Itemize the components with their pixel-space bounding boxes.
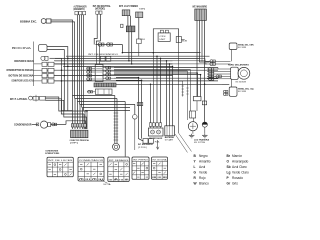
svg-text:Azul: Azul xyxy=(199,165,205,169)
headlight bullets row A xyxy=(210,60,231,66)
wire rows join xyxy=(200,56,222,79)
wire vertical feed left xyxy=(33,42,35,87)
wire left row 3 xyxy=(54,69,218,71)
spark plug wire ticks xyxy=(114,113,119,140)
svg-text:(2 POS.): (2 POS.) xyxy=(138,147,147,149)
svg-text:Rojo: Rojo xyxy=(199,176,206,180)
wire clutch lead xyxy=(138,18,140,39)
wire CDI drops xyxy=(153,43,178,134)
junction block xyxy=(126,26,135,32)
left switch lead label 3 xyxy=(7,69,43,72)
svg-text:BOB: BOB xyxy=(182,41,188,43)
svg-text:6V 18W: 6V 18W xyxy=(238,47,246,49)
svg-text:6V 17/5W: 6V 17/5W xyxy=(194,142,205,144)
tail lamp label xyxy=(194,139,209,145)
inline connectors on charge lines xyxy=(137,103,143,106)
ground stub center xyxy=(156,140,159,150)
svg-text:INT. BOCINA: INT. BOCINA xyxy=(153,158,168,161)
switch continuity table 5 xyxy=(152,157,169,179)
svg-text:(MAGNETO): (MAGNETO) xyxy=(74,8,85,11)
svg-text:Blanco: Blanco xyxy=(199,182,209,186)
svg-text:CONECTOR PRINCIPAL: CONECTOR PRINCIPAL xyxy=(70,139,90,142)
svg-text:INT. FRENO: INT. FRENO xyxy=(133,159,149,161)
svg-text:Rosado: Rosado xyxy=(232,176,243,180)
svg-text:Lg: Lg xyxy=(227,171,231,175)
svg-text:INT. ENCENDIDO: INT. ENCENDIDO xyxy=(138,144,153,146)
svg-text:NOTA: NOTA xyxy=(104,183,112,186)
svg-text:BOCINA: BOCINA xyxy=(12,47,32,50)
svg-text:Sb: Sb xyxy=(227,165,231,169)
wire neutral leads xyxy=(94,14,100,44)
rectifier xyxy=(148,128,163,136)
switch continuity table 4 xyxy=(132,157,149,179)
diode tick xyxy=(121,24,123,27)
svg-text:BOBINA EXC.: BOBINA EXC. xyxy=(20,20,37,23)
svg-text:(9P): (9P) xyxy=(70,142,79,144)
svg-text:(VERDE): (VERDE) xyxy=(95,8,105,11)
turn signal front right xyxy=(229,43,237,50)
CDI label xyxy=(140,39,146,41)
bullet connector pair (exciter lead) xyxy=(41,19,51,24)
wire lower fanout center xyxy=(115,96,125,157)
battery note text xyxy=(138,144,153,149)
battery BT1 xyxy=(165,126,175,136)
horn label xyxy=(12,47,32,50)
wire left row 2 xyxy=(54,63,173,65)
harness coupler xyxy=(71,130,88,138)
wire switch outputs right xyxy=(114,68,218,97)
headlight sub label xyxy=(236,81,247,83)
front brake switch label xyxy=(119,5,146,10)
svg-text:FARO DELANTERO: FARO DELANTERO xyxy=(228,64,249,67)
svg-text:INTERRUPTOR DE PARADA: INTERRUPTOR DE PARADA xyxy=(7,69,34,72)
fan inline connectors xyxy=(71,124,86,127)
svg-text:SENAL DEL. IZQ.: SENAL DEL. IZQ. xyxy=(238,88,254,91)
horn xyxy=(39,45,47,52)
left switch lead label 1 xyxy=(0,0,1,1)
left switch connector pair 2 xyxy=(42,62,54,66)
inline connector pair on bus xyxy=(100,56,111,61)
wire exciter double lead xyxy=(51,20,75,99)
svg-text:BOTON DE BOCINA: BOTON DE BOCINA xyxy=(9,75,34,78)
wire horn leads xyxy=(47,47,68,111)
wire junction drops xyxy=(129,32,132,64)
wire turn signal right drop xyxy=(231,50,233,62)
ground tail lamp xyxy=(202,127,208,138)
battery label xyxy=(165,136,174,141)
ignition switch right bullets xyxy=(103,66,114,79)
junction dots xyxy=(61,52,206,112)
wire main bus xyxy=(55,45,202,59)
svg-text:CDI: CDI xyxy=(160,36,167,38)
svg-text:6V 4AH: 6V 4AH xyxy=(165,139,174,142)
front brake switch connector xyxy=(122,10,130,16)
headlight label xyxy=(228,64,249,67)
clutch switch connector xyxy=(136,12,143,18)
bullet connectors main lead xyxy=(98,43,112,46)
svg-text:UNIT: UNIT xyxy=(160,39,167,41)
svg-text:6V 35/35W: 6V 35/35W xyxy=(236,81,247,83)
inline connector tail xyxy=(202,101,206,105)
wire alternator bundle xyxy=(78,15,84,111)
svg-text:Marrón: Marrón xyxy=(232,154,242,158)
neutral switch label xyxy=(93,5,111,11)
svg-text:GN: GN xyxy=(139,8,146,10)
left switch connector pair 3 xyxy=(42,68,54,72)
wire long rows right xyxy=(55,61,210,67)
ignition pulse generator label xyxy=(20,20,37,23)
svg-text:6V 18W: 6V 18W xyxy=(238,91,246,93)
brake light switch rear xyxy=(193,97,201,112)
left switch lead label 5 xyxy=(12,80,43,83)
wire colour legend xyxy=(194,154,250,186)
wire mid verticals to regulator xyxy=(116,56,173,141)
headlight xyxy=(231,67,250,79)
turn signal front left label xyxy=(238,88,254,94)
wire turn signal left drop xyxy=(222,79,232,87)
condenser xyxy=(32,121,51,128)
wire side stand leads xyxy=(45,97,87,129)
switch continuity table 2 xyxy=(78,157,105,181)
condenser label xyxy=(14,124,32,127)
wire left row 4 xyxy=(54,75,173,77)
wire brake switch leads xyxy=(128,16,131,26)
wire shielded ticks xyxy=(178,70,191,120)
flasher relay xyxy=(188,122,197,131)
turn signal front right label xyxy=(238,43,254,49)
CDI unit U1 xyxy=(153,29,178,50)
alternator connector bank xyxy=(75,11,86,14)
switch continuity table 3 xyxy=(108,157,130,182)
svg-text:Azul Claro: Azul Claro xyxy=(232,165,247,169)
svg-text:CONMUTADOR LUCES ALTAS: CONMUTADOR LUCES ALTAS xyxy=(12,80,34,83)
svg-text:CDI: CDI xyxy=(140,39,146,41)
svg-text:Anaranjado: Anaranjado xyxy=(232,159,249,163)
wire left row 5 xyxy=(54,80,218,82)
svg-text:CONMUTADOR: CONMUTADOR xyxy=(79,159,104,162)
left switch connector pair 1 xyxy=(0,0,1,1)
inline diode D1 xyxy=(137,39,142,56)
svg-text:INT. MANUBRIO: INT. MANUBRIO xyxy=(193,5,208,8)
wire condenser lead xyxy=(51,121,86,129)
tail lamp bulb xyxy=(202,122,207,127)
pointer line to table xyxy=(175,133,192,153)
left switch connector pair 5 xyxy=(42,79,54,83)
alternator connector bank label xyxy=(74,5,87,11)
turn signal front left xyxy=(223,87,237,96)
wire handlebar bundle xyxy=(197,20,210,122)
svg-text:Amarillo: Amarillo xyxy=(199,159,211,163)
fuse F1 xyxy=(143,139,160,144)
svg-text:INTERRUPTORES: INTERRUPTORES xyxy=(45,153,60,155)
handlebar switch connector label xyxy=(193,5,208,8)
side stand switch connector xyxy=(29,95,46,102)
table heading text xyxy=(45,150,60,155)
wire switch feeds xyxy=(97,45,100,65)
flasher relay connector xyxy=(190,111,196,122)
wire to rear lamp xyxy=(114,70,229,85)
svg-text:INT. SENALES: INT. SENALES xyxy=(109,159,129,162)
left switch lead label 4 xyxy=(9,75,43,78)
spark plug xyxy=(113,143,120,150)
svg-text:Verde Claro: Verde Claro xyxy=(232,171,249,175)
ground flasher xyxy=(189,131,195,138)
inline connector on clutch line xyxy=(133,105,138,151)
handlebar switch connector xyxy=(195,9,207,20)
left switch lead label 2 xyxy=(14,60,42,64)
svg-text:CONMUTADOR DE SENALES: CONMUTADOR DE SENALES xyxy=(14,60,34,63)
left switch connector pair 4 xyxy=(42,74,54,78)
svg-text:CONDENSADOR: CONDENSADOR xyxy=(14,124,32,127)
switch continuity table 1 xyxy=(47,157,73,177)
neutral switch connector xyxy=(96,11,102,14)
wire harness fan xyxy=(62,96,136,130)
svg-text:INT. LUZ FRENO: INT. LUZ FRENO xyxy=(119,5,138,8)
rectifier label xyxy=(149,137,162,140)
harness coupler label xyxy=(70,139,90,145)
main 6P connector strip xyxy=(94,83,116,87)
pointer note xyxy=(100,180,111,187)
regulator connector row xyxy=(149,123,161,128)
wire left row 1 xyxy=(54,60,173,62)
svg-text:INT. P. LATERAL: INT. P. LATERAL xyxy=(10,98,28,101)
headlight bullets row B xyxy=(207,67,231,80)
svg-text:W: W xyxy=(194,182,197,186)
neutral indicator lead label xyxy=(10,98,28,101)
ignition switch label xyxy=(88,54,118,56)
svg-text:INT. DE LUCES: INT. DE LUCES xyxy=(48,160,73,162)
fuse holder block xyxy=(87,89,112,94)
ignition coil T1 xyxy=(176,37,188,43)
svg-text:Gris: Gris xyxy=(232,182,238,186)
ignition switch SW1 xyxy=(95,65,103,82)
svg-text:Verde: Verde xyxy=(199,171,208,175)
ignition switch left bullets xyxy=(87,67,96,80)
dimmer switch lead bullet xyxy=(41,56,62,110)
svg-text:Negro: Negro xyxy=(199,154,208,158)
svg-text:L: L xyxy=(194,165,196,169)
